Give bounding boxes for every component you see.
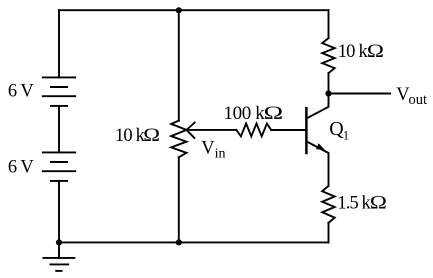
svg-text:out: out bbox=[409, 92, 428, 108]
svg-text:Ω: Ω bbox=[143, 126, 160, 146]
svg-text:10 k: 10 k bbox=[115, 126, 146, 146]
svg-text:Ω: Ω bbox=[370, 192, 387, 213]
svg-text:Ω: Ω bbox=[367, 40, 384, 61]
svg-text:10 k: 10 k bbox=[338, 42, 369, 62]
svg-text:6 V: 6 V bbox=[8, 157, 34, 177]
svg-text:V: V bbox=[201, 139, 215, 159]
svg-text:100 k: 100 k bbox=[224, 103, 266, 124]
svg-text:Ω: Ω bbox=[264, 102, 283, 123]
svg-text:1.5 k: 1.5 k bbox=[337, 193, 371, 213]
svg-text:in: in bbox=[215, 147, 226, 162]
svg-text:6 V: 6 V bbox=[8, 82, 34, 102]
svg-text:1: 1 bbox=[343, 129, 349, 143]
